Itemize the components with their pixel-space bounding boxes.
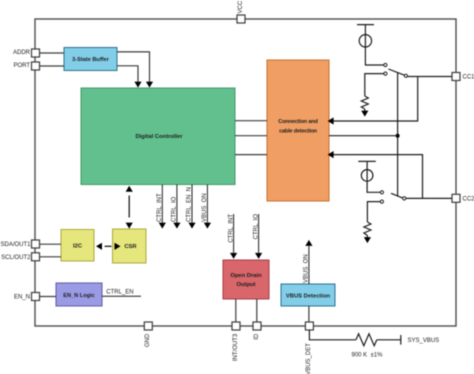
wire CTRL_EN_N from controller — [187, 185, 196, 229]
terminal SYS_VBUS — [400, 335, 402, 345]
svg-text:Digital Controller: Digital Controller — [135, 134, 183, 140]
svg-text:CTRL_EN: CTRL_EN — [106, 289, 133, 295]
pin INT/OUT3 — [232, 322, 240, 361]
wire switch SW1 to CC1 pin — [408, 76, 453, 78]
svg-text:CTRL_INT: CTRL_INT — [157, 193, 163, 222]
wire SCL to I2C — [40, 256, 62, 258]
svg-text:VBUS Detection: VBUS Detection — [286, 294, 331, 300]
pin SDA/OUT1 — [0, 240, 39, 248]
svg-text:PORT: PORT — [13, 63, 30, 69]
svg-text:VBUS_ON: VBUS_ON — [304, 254, 310, 283]
svg-text:VBUS_ON: VBUS_ON — [202, 193, 208, 222]
open drain output block — [223, 260, 269, 299]
svg-text:I2C: I2C — [73, 243, 83, 249]
svg-text:ADDR: ADDR — [13, 50, 31, 56]
wire CTRL_INT into open drain output — [228, 214, 237, 259]
svg-text:Output: Output — [237, 282, 256, 288]
svg-text:VBUS_DET: VBUS_DET — [306, 343, 312, 374]
wire CTRL_IO into open drain output — [253, 214, 262, 259]
resistor 900K zigzag — [356, 334, 377, 346]
resistor Rd2 (CC2 pulldown) — [364, 222, 371, 236]
svg-text:Open Drain: Open Drain — [230, 273, 262, 279]
svg-text:900 K ±1%: 900 K ±1% — [352, 352, 384, 358]
net label CTRL_EN — [102, 289, 141, 296]
resistor Rd1 (CC1 pulldown) — [361, 96, 368, 109]
wire buffer upper output to controller — [117, 52, 153, 88]
svg-text:SCL/OUT2: SCL/OUT2 — [1, 255, 31, 261]
wire current source to switch SW1 — [365, 47, 383, 65]
wire VBUS_DET pin to external resistor — [309, 330, 356, 340]
svg-text:ID: ID — [254, 333, 260, 340]
wire detection middle to arm bus — [329, 135, 398, 137]
pin PORT — [13, 62, 39, 70]
wire controller to detection middle — [235, 135, 267, 137]
wire switch lower contact to resistor Rd1 — [365, 74, 384, 96]
digital controller block — [81, 88, 235, 185]
wire PORT to buffer — [40, 65, 65, 67]
pin CC1 — [452, 73, 474, 81]
pin GND — [144, 322, 152, 347]
wire current source to switch SW2 — [367, 181, 380, 192]
svg-text:CSR: CSR — [124, 244, 137, 250]
svg-text:GND: GND — [145, 333, 151, 347]
wire CTRL_INT from controller — [157, 185, 166, 229]
pin VCC — [237, 0, 245, 23]
wire I2C-CSR bidirectional — [96, 243, 121, 250]
svg-text:3-State Buffer: 3-State Buffer — [72, 57, 109, 63]
svg-text:CTRL_EN_N: CTRL_EN_N — [187, 187, 193, 222]
pin CC2 — [452, 194, 474, 202]
I2C block — [61, 230, 94, 262]
wire controller to detection lower — [235, 154, 267, 156]
EN_N Logic block — [56, 283, 102, 306]
svg-text:SYS_VBUS: SYS_VBUS — [408, 338, 440, 344]
CSR block — [113, 229, 147, 263]
svg-text:Connection and: Connection and — [278, 119, 317, 125]
pin SCL/OUT2 — [1, 253, 39, 261]
wire VBUS_ON from controller — [202, 185, 211, 229]
VBUS detection block — [281, 284, 335, 306]
svg-text:CTRL_IO: CTRL_IO — [253, 214, 259, 240]
wire controller to detection upper — [235, 120, 267, 122]
pin EN_N — [14, 293, 40, 301]
pin ID — [253, 322, 261, 340]
current source I2 (CC2) — [361, 170, 373, 182]
ground arrow (CC2 pulldown) — [364, 236, 371, 244]
wire controller-CSR bidirectional — [126, 186, 133, 229]
wire SDA to I2C — [40, 243, 62, 245]
svg-text:SDA/OUT1: SDA/OUT1 — [0, 242, 31, 248]
arrow into detection upper right — [328, 117, 334, 124]
wire ADDR to buffer — [40, 52, 65, 54]
wire open drain to INT/OUT3 pin — [235, 299, 237, 322]
VCC rail T-bar (CC1 branch) — [357, 25, 374, 35]
wire detection lower to CC2 net — [334, 155, 423, 199]
connection and cable detection block — [267, 60, 329, 201]
wire resistor to SYS_VBUS terminal — [377, 339, 401, 341]
wire buffer lower output to controller — [117, 66, 142, 88]
svg-text:VCC: VCC — [238, 0, 244, 13]
node junction on arm bus — [396, 134, 400, 138]
wire CTRL_IO from controller — [172, 185, 181, 229]
wire EN_N to logic — [40, 296, 57, 298]
VCC rail T-bar (CC2 branch) — [358, 161, 376, 170]
chip boundary frame — [35, 19, 456, 326]
wire arm bus vertical (SW1 to SW2) — [397, 72, 399, 196]
arrow into detection lower right — [328, 151, 334, 158]
svg-text:CC2: CC2 — [463, 197, 474, 203]
svg-text:CTRL_IO: CTRL_IO — [172, 196, 178, 222]
wire open drain to ID pin — [256, 299, 258, 322]
wire switch lower contact to resistor Rd2 — [367, 202, 380, 222]
svg-text:cable detection: cable detection — [279, 128, 318, 134]
pin ADDR — [13, 49, 40, 57]
net label VBUS_ON arrow up from VBUS detection — [304, 240, 313, 284]
svg-text:INT/OUT3: INT/OUT3 — [233, 333, 239, 361]
svg-text:CC1: CC1 — [463, 75, 474, 81]
switch SW2 (CC2) — [380, 191, 406, 204]
ground arrow (CC1 pulldown) — [361, 109, 368, 117]
switch SW1 (CC1) — [384, 63, 408, 77]
3-State Buffer block — [64, 48, 117, 71]
svg-text:CTRL_INT: CTRL_INT — [228, 214, 234, 243]
wire VBUS detection to VBUS_DET pin — [308, 306, 310, 322]
pin VBUS_DET — [305, 322, 313, 374]
current source I1 (CC1) — [359, 35, 371, 47]
wire switch SW2 to CC2 pin — [406, 197, 452, 199]
wire CC1 to detection (upper feedback) — [334, 77, 418, 122]
svg-text:EN_N Logic: EN_N Logic — [63, 293, 94, 299]
svg-text:EN_N: EN_N — [14, 294, 30, 300]
